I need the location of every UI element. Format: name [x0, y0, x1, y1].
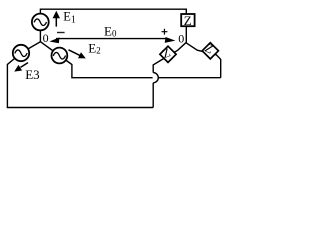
- svg-text:0: 0: [178, 31, 184, 45]
- svg-text:Z: Z: [184, 13, 192, 28]
- svg-text:E3: E3: [25, 67, 39, 82]
- svg-text:0: 0: [43, 31, 49, 45]
